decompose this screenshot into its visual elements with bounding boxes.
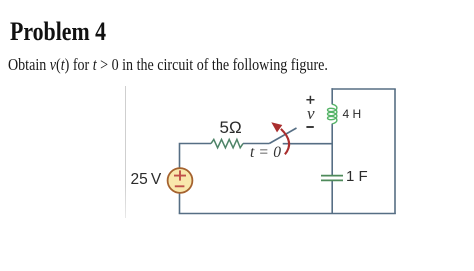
minus sign in source (175, 185, 185, 187)
label +v- (307, 105, 315, 122)
wire left vertical below source (179, 193, 181, 214)
resistor R 5ohm (211, 139, 243, 147)
wire right side (394, 89, 396, 214)
wire capacitor to bottom (331, 181, 333, 215)
switch blade (269, 128, 296, 144)
inductor L 4H coil (328, 104, 337, 123)
title (10, 19, 106, 45)
plus sign in source (174, 170, 186, 180)
label 4H (343, 108, 362, 120)
voltage source V1 circle (168, 168, 193, 193)
wire middle right (243, 143, 269, 145)
wire inductor branch top (331, 88, 333, 104)
switch red arc arrow (281, 129, 289, 154)
label minus polarity (306, 126, 313, 128)
label 1F (346, 169, 368, 184)
wire top (331, 88, 395, 90)
label plus polarity (306, 96, 314, 104)
label 25V (131, 172, 162, 188)
wire middle left (180, 144, 212, 169)
label 5ohm (220, 119, 242, 136)
label t=0 (250, 145, 282, 161)
wire switch to junction (283, 143, 333, 145)
capacitor C 1F plates (321, 175, 343, 177)
problem statement (8, 57, 328, 74)
wire bottom (179, 213, 396, 215)
page divider line (125, 86, 127, 218)
wire inductor to junction (331, 124, 333, 144)
wire junction to capacitor (331, 144, 333, 175)
